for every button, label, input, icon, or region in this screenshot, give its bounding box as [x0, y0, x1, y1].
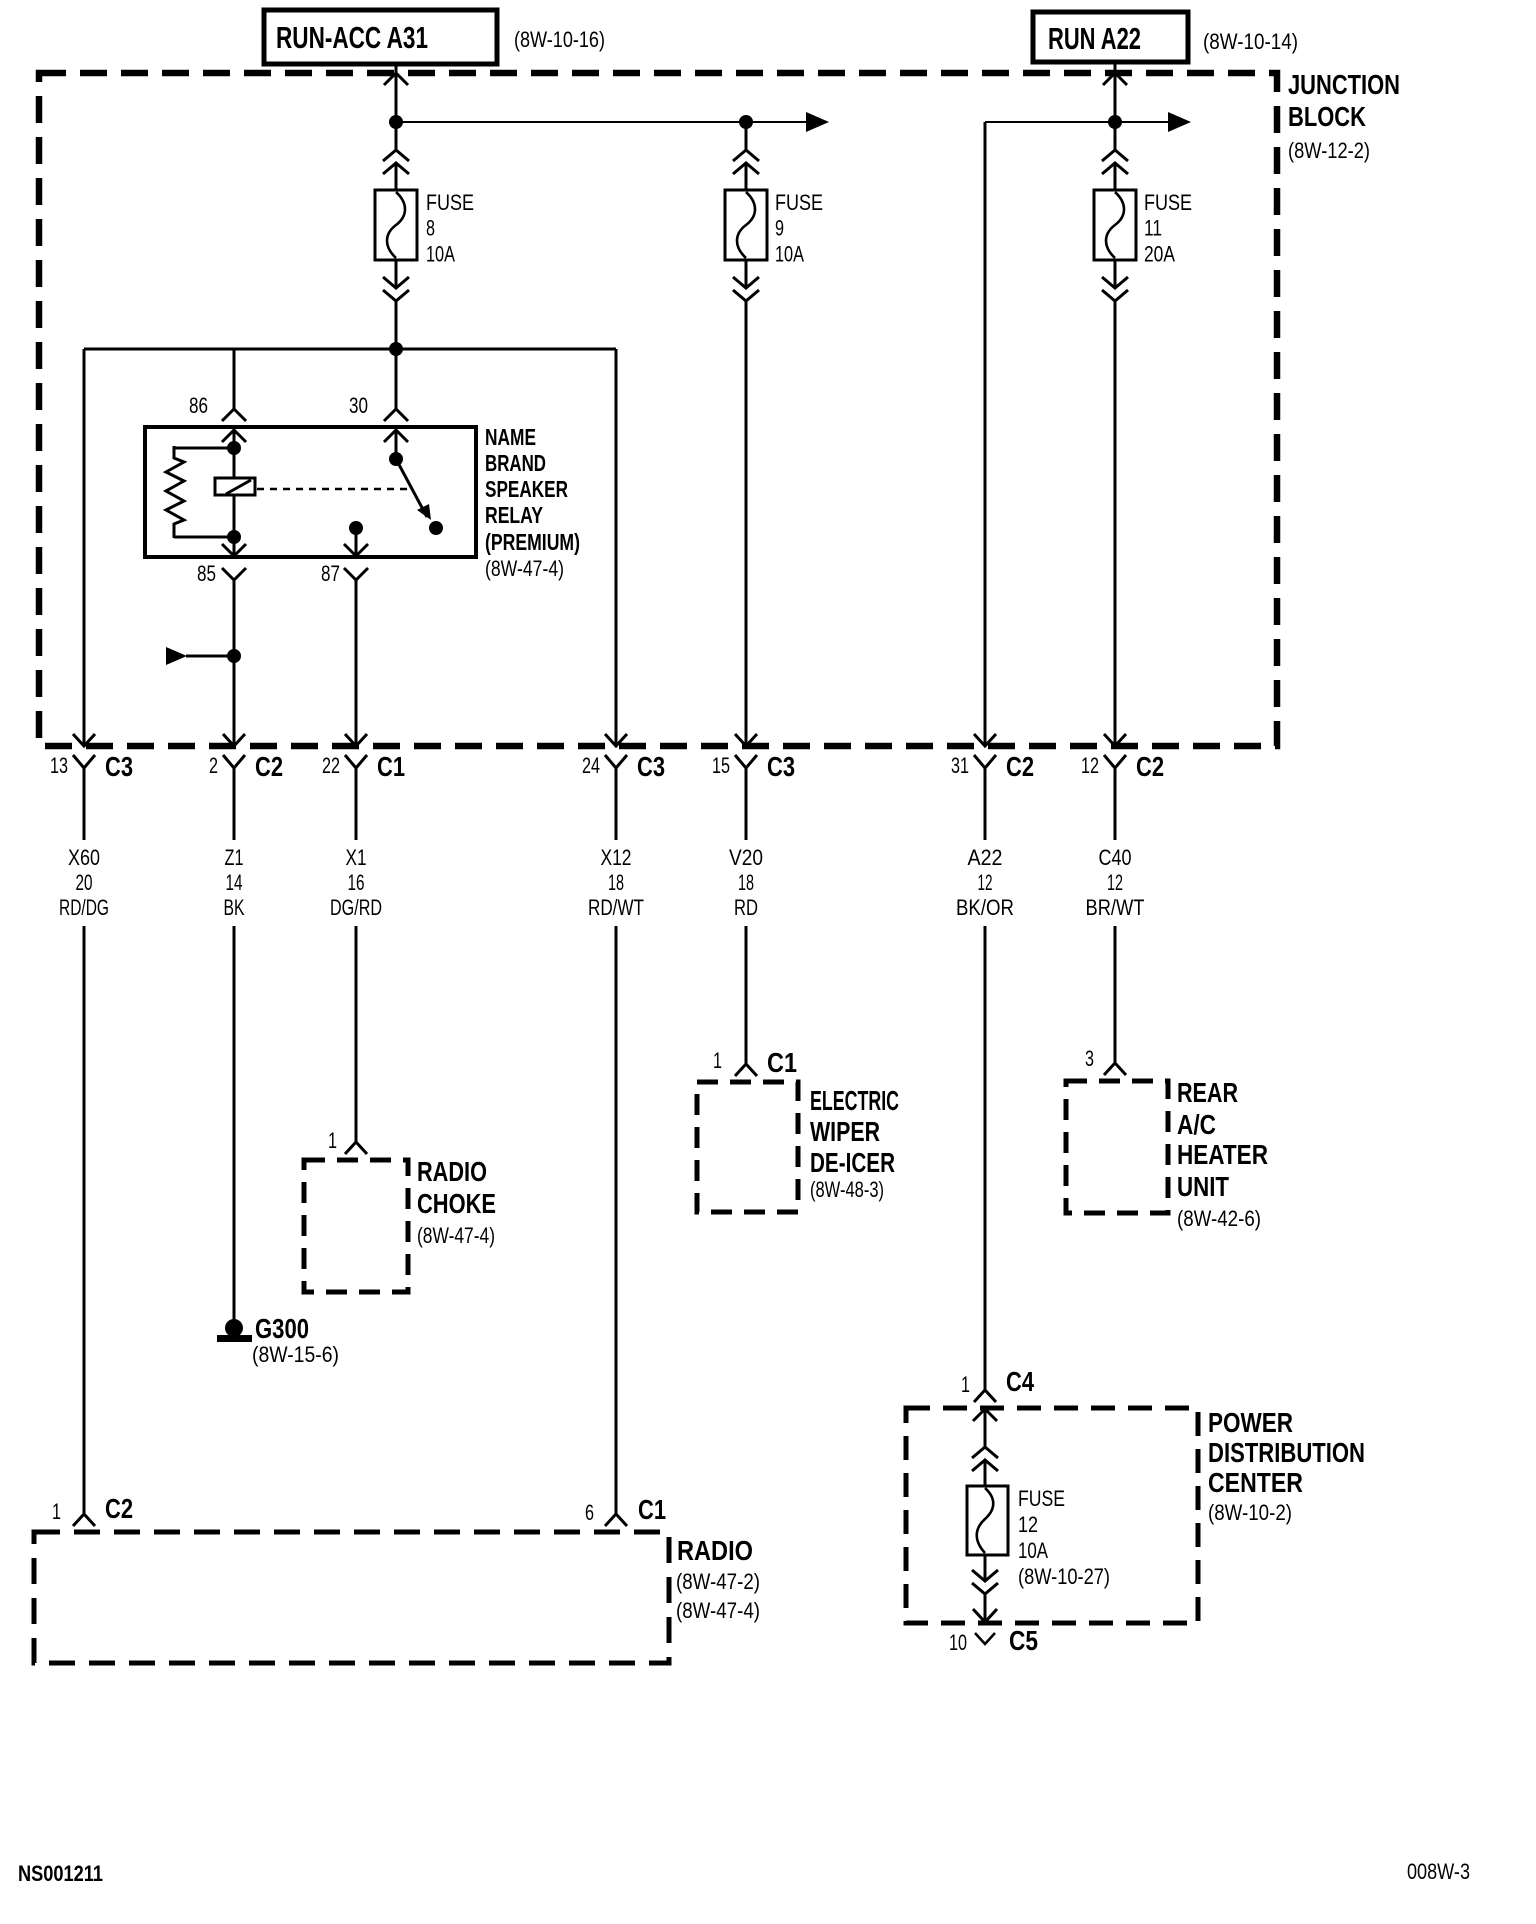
svg-text:NS001211: NS001211	[18, 1861, 103, 1886]
svg-text:CENTER: CENTER	[1208, 1467, 1303, 1498]
svg-text:V20: V20	[729, 845, 763, 870]
svg-text:SPEAKER: SPEAKER	[485, 476, 568, 502]
svg-text:(8W-47-4): (8W-47-4)	[676, 1598, 760, 1623]
svg-text:20: 20	[76, 870, 93, 895]
svg-text:(8W-10-14): (8W-10-14)	[1203, 29, 1298, 54]
svg-text:WIPER: WIPER	[810, 1116, 880, 1147]
svg-text:(8W-10-16): (8W-10-16)	[514, 27, 605, 52]
svg-text:RADIO: RADIO	[417, 1156, 487, 1187]
svg-text:18: 18	[738, 870, 754, 895]
svg-text:(8W-10-27): (8W-10-27)	[1018, 1564, 1110, 1589]
svg-text:C4: C4	[1006, 1366, 1034, 1397]
svg-text:C1: C1	[638, 1494, 666, 1525]
svg-text:BR/WT: BR/WT	[1086, 895, 1145, 920]
svg-text:C2: C2	[1136, 751, 1164, 782]
svg-text:BK/OR: BK/OR	[956, 895, 1014, 920]
svg-text:11: 11	[1144, 216, 1162, 241]
svg-text:RUN A22: RUN A22	[1048, 21, 1141, 56]
svg-text:C3: C3	[105, 751, 133, 782]
svg-text:12: 12	[1018, 1512, 1038, 1537]
svg-text:C5: C5	[1009, 1625, 1038, 1656]
svg-text:RD/DG: RD/DG	[59, 895, 109, 920]
svg-text:CHOKE: CHOKE	[417, 1188, 496, 1219]
svg-text:C40: C40	[1099, 845, 1132, 870]
svg-text:A/C: A/C	[1177, 1109, 1216, 1140]
svg-text:C2: C2	[105, 1493, 133, 1524]
svg-text:2: 2	[209, 753, 218, 778]
svg-text:6: 6	[585, 1500, 594, 1525]
svg-text:13: 13	[50, 753, 68, 778]
svg-text:X12: X12	[601, 845, 632, 870]
svg-text:POWER: POWER	[1208, 1407, 1293, 1438]
svg-text:(PREMIUM): (PREMIUM)	[485, 529, 580, 555]
svg-text:BLOCK: BLOCK	[1288, 101, 1366, 132]
svg-text:JUNCTION: JUNCTION	[1288, 69, 1400, 100]
svg-text:3: 3	[1085, 1046, 1094, 1071]
svg-text:FUSE: FUSE	[426, 190, 474, 215]
svg-text:1: 1	[52, 1499, 61, 1524]
svg-text:12: 12	[978, 870, 993, 895]
svg-text:C2: C2	[255, 751, 283, 782]
svg-text:REAR: REAR	[1177, 1077, 1238, 1108]
svg-text:X1: X1	[346, 845, 367, 870]
svg-text:BK: BK	[224, 895, 245, 920]
svg-text:10A: 10A	[1018, 1538, 1048, 1563]
svg-text:16: 16	[348, 870, 365, 895]
svg-text:DE-ICER: DE-ICER	[810, 1147, 895, 1178]
svg-text:18: 18	[608, 870, 624, 895]
svg-text:(8W-15-6): (8W-15-6)	[252, 1342, 339, 1367]
svg-text:C2: C2	[1006, 751, 1034, 782]
svg-text:C1: C1	[377, 751, 405, 782]
svg-text:RUN-ACC A31: RUN-ACC A31	[276, 20, 428, 55]
svg-text:(8W-47-2): (8W-47-2)	[676, 1569, 760, 1594]
svg-text:12: 12	[1107, 870, 1123, 895]
svg-text:1: 1	[713, 1048, 722, 1073]
svg-text:RELAY: RELAY	[485, 502, 543, 528]
svg-text:FUSE: FUSE	[1144, 190, 1192, 215]
svg-text:85: 85	[197, 561, 216, 586]
svg-text:9: 9	[775, 216, 784, 241]
svg-text:C3: C3	[767, 751, 795, 782]
svg-text:15: 15	[712, 753, 730, 778]
svg-text:12: 12	[1081, 753, 1099, 778]
svg-text:RD: RD	[734, 895, 758, 920]
svg-text:14: 14	[226, 870, 243, 895]
svg-text:FUSE: FUSE	[775, 190, 823, 215]
svg-text:(8W-12-2): (8W-12-2)	[1288, 138, 1370, 163]
svg-text:008W-3: 008W-3	[1407, 1859, 1470, 1884]
svg-text:G300: G300	[255, 1313, 309, 1344]
svg-text:22: 22	[322, 753, 340, 778]
svg-text:10A: 10A	[426, 241, 455, 266]
svg-text:DG/RD: DG/RD	[330, 895, 382, 920]
svg-text:(8W-42-6): (8W-42-6)	[1177, 1206, 1261, 1231]
svg-text:1: 1	[328, 1128, 337, 1153]
svg-text:RD/WT: RD/WT	[588, 895, 644, 920]
svg-text:(8W-47-4): (8W-47-4)	[417, 1223, 495, 1248]
svg-text:1: 1	[961, 1372, 970, 1397]
svg-text:NAME: NAME	[485, 424, 536, 450]
svg-text:10: 10	[949, 1630, 967, 1655]
svg-text:31: 31	[951, 753, 969, 778]
svg-text:86: 86	[189, 393, 208, 418]
svg-text:X60: X60	[68, 845, 100, 870]
svg-text:87: 87	[321, 561, 340, 586]
svg-text:24: 24	[582, 753, 600, 778]
svg-text:Z1: Z1	[225, 845, 244, 870]
svg-text:30: 30	[349, 393, 368, 418]
svg-text:ELECTRIC: ELECTRIC	[810, 1085, 899, 1116]
svg-text:C1: C1	[767, 1047, 797, 1078]
svg-text:(8W-47-4): (8W-47-4)	[485, 556, 564, 581]
svg-text:BRAND: BRAND	[485, 450, 546, 476]
svg-text:UNIT: UNIT	[1177, 1171, 1229, 1202]
svg-text:RADIO: RADIO	[677, 1535, 753, 1566]
svg-text:20A: 20A	[1144, 241, 1175, 266]
svg-text:HEATER: HEATER	[1177, 1139, 1268, 1170]
svg-text:FUSE: FUSE	[1018, 1486, 1065, 1511]
svg-text:(8W-48-3): (8W-48-3)	[810, 1177, 884, 1202]
svg-text:10A: 10A	[775, 241, 804, 266]
svg-text:C3: C3	[637, 751, 665, 782]
svg-text:8: 8	[426, 216, 435, 241]
svg-text:DISTRIBUTION: DISTRIBUTION	[1208, 1437, 1365, 1468]
svg-text:A22: A22	[968, 845, 1003, 870]
svg-text:(8W-10-2): (8W-10-2)	[1208, 1500, 1292, 1525]
